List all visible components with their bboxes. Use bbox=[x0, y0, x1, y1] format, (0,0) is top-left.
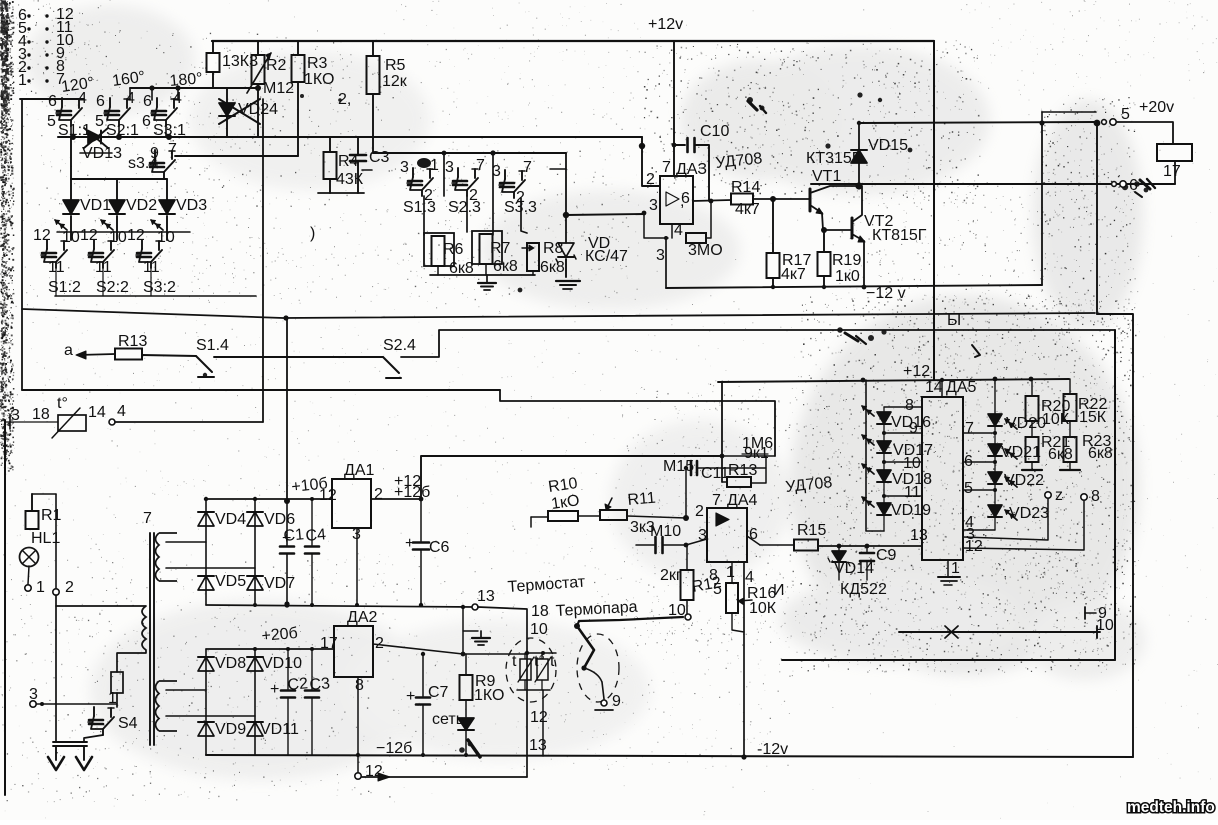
wire thermistor lead bbox=[5, 421, 58, 423]
svg-text:С11: С11 bbox=[701, 465, 729, 482]
switch S4 bbox=[93, 707, 95, 716]
svg-text:R15: R15 bbox=[797, 522, 826, 539]
svg-text:t°: t° bbox=[534, 653, 545, 670]
wire DA5 ground bbox=[947, 560, 949, 576]
svg-text:7: 7 bbox=[476, 157, 485, 174]
svg-text:VD21: VD21 bbox=[1001, 444, 1041, 461]
wire +12v drop to DA3 pin7 bbox=[673, 41, 675, 176]
wire +12v main vertical to indicator box bbox=[933, 41, 935, 380]
led VD16 bbox=[883, 407, 885, 412]
resistor R23 bbox=[1069, 421, 1071, 437]
svg-text:КД522: КД522 bbox=[840, 581, 887, 598]
wire pin9 bbox=[884, 432, 922, 434]
ground under resistors bbox=[486, 275, 488, 283]
resistor R21 bbox=[1031, 421, 1033, 437]
svg-text:7: 7 bbox=[965, 420, 974, 437]
scan noise speckles bbox=[0, 3, 14, 459]
node VT collector junction bbox=[855, 182, 862, 189]
svg-text:3: 3 bbox=[11, 407, 20, 424]
wire led anode feed bbox=[866, 380, 884, 531]
wire temperature select line bbox=[58, 136, 642, 138]
svg-text:12: 12 bbox=[530, 709, 548, 726]
svg-text:КТ815Г: КТ815Г bbox=[872, 227, 927, 244]
svg-text:2кг: 2кг bbox=[660, 567, 682, 584]
svg-text:9: 9 bbox=[612, 693, 621, 710]
wire thermostat to -12 rail bbox=[542, 690, 544, 756]
wire R15 to DA5 bbox=[818, 545, 922, 547]
svg-text:VD5: VD5 bbox=[215, 573, 246, 590]
switch S2.4 bbox=[383, 357, 399, 373]
svg-text:7: 7 bbox=[662, 159, 671, 176]
svg-text:6: 6 bbox=[681, 190, 690, 207]
svg-text:3: 3 bbox=[649, 197, 658, 214]
wire +12v bus bbox=[212, 40, 934, 42]
svg-text:12: 12 bbox=[33, 227, 51, 244]
svg-text:t: t bbox=[550, 653, 555, 670]
svg-text:6к8: 6к8 bbox=[1088, 445, 1113, 462]
svg-text:t: t bbox=[512, 653, 517, 670]
svg-text:R19: R19 bbox=[832, 252, 861, 269]
wire DA4 output bbox=[747, 536, 760, 545]
svg-text:14: 14 bbox=[925, 379, 943, 396]
svg-text:S2.3: S2.3 bbox=[448, 199, 481, 216]
capacitor C7 bbox=[422, 654, 424, 696]
svg-text:4: 4 bbox=[117, 403, 126, 420]
voltage regulator DA1 bbox=[332, 479, 371, 528]
capacitor C11 bbox=[686, 467, 687, 469]
wire pin6 bbox=[963, 461, 995, 463]
svg-text:18: 18 bbox=[32, 406, 50, 423]
capacitor C2 bbox=[287, 649, 289, 689]
diode VD4 bbox=[198, 512, 214, 526]
diode VD13 (crossed out) bbox=[88, 131, 101, 144]
svg-text:R14: R14 bbox=[731, 179, 760, 196]
svg-text:C3: C3 bbox=[369, 149, 390, 166]
svg-text:КС/47: КС/47 bbox=[585, 248, 628, 265]
svg-text:R11: R11 bbox=[627, 490, 657, 509]
svg-text:·: · bbox=[352, 155, 357, 172]
switch S2:2 bbox=[93, 240, 95, 249]
svg-text:1КО: 1КО bbox=[304, 71, 334, 88]
svg-text:10К: 10К bbox=[749, 600, 777, 617]
capacitor C4 bbox=[311, 499, 313, 545]
led VD18 bbox=[883, 453, 885, 470]
zener VD KC147 bbox=[558, 243, 574, 257]
svg-text:VD4: VD4 bbox=[215, 511, 246, 528]
wire output to terminal 6 bbox=[811, 183, 1175, 185]
svg-text:S2.4: S2.4 bbox=[383, 337, 416, 354]
wire S2.3 output to R7 bbox=[466, 196, 468, 232]
svg-text:1КО: 1КО bbox=[474, 687, 504, 704]
led VD23 bbox=[994, 484, 996, 505]
svg-text:4к7: 4к7 bbox=[781, 266, 806, 283]
svg-text:5: 5 bbox=[95, 113, 104, 130]
svg-text:6: 6 bbox=[142, 113, 151, 130]
node terminal z bbox=[1045, 492, 1051, 498]
capacitor C3b bbox=[311, 649, 313, 689]
wire +10 rail bbox=[206, 498, 332, 500]
svg-text:4к7: 4к7 bbox=[735, 201, 760, 218]
op-amp DA3 bbox=[660, 176, 693, 224]
wire pin10 bbox=[884, 461, 922, 463]
resistor R5 bbox=[372, 41, 374, 56]
svg-text:4: 4 bbox=[126, 90, 135, 107]
svg-text:7: 7 bbox=[712, 492, 721, 509]
svg-text:R6: R6 bbox=[443, 241, 464, 258]
diode VD24 (crossed out) bbox=[226, 88, 228, 137]
wire bridge2 columns bbox=[205, 649, 207, 755]
svg-text:17: 17 bbox=[320, 635, 338, 652]
svg-text:ДА2: ДА2 bbox=[347, 609, 378, 626]
svg-text:10: 10 bbox=[109, 229, 127, 246]
wire bridge1 columns bbox=[205, 499, 207, 605]
fuse F1 bbox=[111, 672, 123, 693]
wire R14 to VT1 base bbox=[753, 198, 810, 200]
svg-text:8: 8 bbox=[355, 677, 364, 694]
wire S3.4 line to R3 bbox=[175, 155, 298, 157]
node terminal 13 bbox=[472, 604, 478, 610]
svg-text:10: 10 bbox=[157, 229, 175, 246]
svg-text:VD18: VD18 bbox=[892, 471, 932, 488]
svg-text:+: + bbox=[405, 535, 414, 552]
capacitor C1 bbox=[286, 499, 288, 545]
svg-text:14: 14 bbox=[88, 404, 106, 421]
resistor R6 bbox=[424, 233, 454, 266]
node terminal 9b bbox=[1084, 607, 1086, 619]
svg-text:2: 2 bbox=[646, 171, 655, 188]
wire switch common feed line bbox=[130, 87, 258, 89]
svg-text:VD10: VD10 bbox=[262, 655, 302, 672]
svg-text:+12: +12 bbox=[903, 363, 930, 380]
wire right frame vertical bbox=[262, 99, 264, 422]
wire 1M6 node line bbox=[722, 455, 775, 457]
svg-text:1: 1 bbox=[18, 72, 27, 89]
svg-text:medteh.info: medteh.info bbox=[1127, 799, 1215, 816]
svg-text:С3: С3 bbox=[309, 675, 331, 694]
capacitor C6 bbox=[420, 499, 422, 541]
svg-text:VD3: VD3 bbox=[176, 197, 207, 214]
capacitor M10 bbox=[636, 544, 654, 546]
wire upper box line bbox=[20, 98, 84, 100]
scan mark arrow bbox=[972, 345, 980, 357]
switch S3.3 bbox=[504, 170, 506, 179]
svg-text:15К: 15К bbox=[1079, 409, 1107, 426]
node terminal 6 bbox=[1112, 182, 1117, 187]
zener set diode bbox=[465, 700, 467, 718]
resistor R3 bbox=[297, 41, 299, 55]
wire +20v terminal feed bbox=[859, 122, 1095, 123]
wire node up to 13 rail bbox=[462, 607, 464, 654]
svg-text:VD7: VD7 bbox=[264, 575, 295, 592]
thermistor t bbox=[58, 415, 86, 431]
node terminal 1 bbox=[25, 585, 31, 591]
svg-text:6: 6 bbox=[96, 93, 105, 110]
wire -12 corner up bbox=[1041, 123, 1043, 285]
wire R4 C3 bottom bar bbox=[318, 192, 364, 194]
node terminal 4 bbox=[109, 419, 115, 425]
wire indicator right edge bbox=[1114, 330, 1116, 660]
svg-text:+12б: +12б bbox=[394, 484, 430, 501]
svg-text:VD14: VD14 bbox=[834, 560, 874, 577]
diode VD7 bbox=[247, 576, 263, 590]
svg-text:180°: 180° bbox=[169, 70, 203, 90]
wire pin4 bbox=[963, 529, 995, 531]
led VD17 bbox=[883, 424, 885, 441]
svg-text:М15: М15 bbox=[663, 458, 694, 475]
svg-text:t°: t° bbox=[57, 395, 68, 412]
wire frame bottom bbox=[22, 389, 500, 391]
svg-text:7: 7 bbox=[56, 71, 65, 88]
wire pin2 node vertical bbox=[685, 468, 687, 518]
wire select line corner to pin 2 bbox=[642, 137, 660, 186]
svg-text:С1: С1 bbox=[283, 526, 305, 545]
thermostat sensors bbox=[525, 651, 529, 655]
svg-text:КТ315Г: КТ315Г bbox=[806, 150, 861, 167]
resistor R8 bbox=[527, 243, 539, 271]
svg-text:VD19: VD19 bbox=[891, 502, 931, 519]
svg-text:10: 10 bbox=[668, 602, 686, 619]
svg-text:z: z bbox=[1055, 487, 1063, 504]
svg-text:Ы: Ы bbox=[947, 312, 961, 329]
led VD20 bbox=[994, 379, 996, 414]
wire node to DA4 pin3 bbox=[686, 539, 707, 545]
switch S2:1 bbox=[109, 98, 111, 107]
wire indicator bottom edge bbox=[782, 659, 1115, 661]
svg-text:10: 10 bbox=[530, 621, 548, 638]
svg-text:3: 3 bbox=[445, 159, 454, 176]
svg-text:S1:2: S1:2 bbox=[48, 279, 81, 296]
svg-text:6: 6 bbox=[1129, 177, 1138, 194]
scan edge dark strip bbox=[0, 0, 10, 460]
svg-text:6: 6 bbox=[48, 93, 57, 110]
ground stub near node bbox=[463, 630, 478, 632]
switch S3.4 bbox=[154, 150, 156, 158]
svg-text:+12v: +12v bbox=[648, 16, 683, 33]
svg-text:9: 9 bbox=[150, 145, 159, 162]
led VD21 bbox=[994, 426, 996, 444]
svg-text:ДА1: ДА1 bbox=[344, 462, 375, 479]
node terminal 12 bbox=[357, 755, 359, 773]
svg-text:10: 10 bbox=[62, 229, 80, 246]
wire left edge vertical bbox=[4, 420, 6, 795]
svg-text:1: 1 bbox=[36, 579, 45, 596]
svg-text:сеть: сеть bbox=[432, 711, 464, 728]
resistor R17 bbox=[772, 199, 774, 253]
svg-text:R7: R7 bbox=[490, 240, 511, 257]
svg-text:1к0: 1к0 bbox=[835, 268, 860, 285]
svg-text:VD8: VD8 bbox=[215, 655, 246, 672]
svg-text:VD24: VD24 bbox=[238, 101, 278, 118]
svg-text:3: 3 bbox=[656, 247, 665, 264]
svg-text:VT1: VT1 bbox=[812, 168, 841, 185]
wire arrow to a bbox=[78, 354, 115, 355]
switch S2.3 bbox=[457, 168, 459, 177]
wire 13 to thermostat column bbox=[478, 607, 527, 777]
transformer primary winding bbox=[142, 606, 146, 650]
wire fuse to S4 bbox=[116, 693, 118, 707]
resistor R22 bbox=[1069, 379, 1071, 394]
svg-text:S4: S4 bbox=[118, 715, 138, 732]
svg-text:12: 12 bbox=[80, 227, 98, 244]
wire -12 top line bbox=[666, 285, 1042, 288]
svg-text:12: 12 bbox=[319, 487, 337, 504]
svg-text:−12 v: −12 v bbox=[866, 285, 906, 302]
resistor R15 bbox=[794, 540, 818, 551]
svg-text:3к3: 3к3 bbox=[630, 519, 655, 536]
svg-text:VD11: VD11 bbox=[260, 721, 299, 738]
diode VD10 bbox=[247, 657, 263, 671]
node terminal 3 bbox=[30, 701, 36, 707]
transformer secondary 1 bbox=[156, 533, 178, 581]
wire thermocouple output bbox=[577, 617, 683, 626]
wire terminal 5 to relay bbox=[1117, 122, 1173, 144]
svg-text:2: 2 bbox=[65, 579, 74, 596]
wire pin11 bbox=[884, 495, 922, 497]
switch S1.3 bbox=[412, 168, 414, 177]
svg-text:8: 8 bbox=[1091, 488, 1100, 505]
svg-text:3: 3 bbox=[29, 686, 38, 703]
wire pin5 bbox=[963, 489, 995, 491]
svg-text:С10: С10 bbox=[700, 123, 729, 140]
zener VD14 bbox=[838, 546, 840, 551]
resistor R14 bbox=[731, 194, 753, 205]
wire S1.4 to S2.4 bbox=[214, 356, 383, 358]
svg-text:VD22: VD22 bbox=[1004, 472, 1044, 489]
resistor R12 2k2 bbox=[686, 600, 688, 614]
wire -12b rail long bbox=[206, 755, 1133, 757]
svg-text:−12б: −12б bbox=[376, 740, 412, 757]
wire S3.3 output to R8 bbox=[521, 198, 527, 233]
thermostat dashed outline bbox=[506, 638, 556, 702]
svg-text:6к8: 6к8 bbox=[493, 258, 518, 275]
node terminal 2 bbox=[55, 494, 57, 589]
svg-text:13: 13 bbox=[529, 737, 547, 754]
wire S1.3 pin1 drop bbox=[443, 153, 445, 196]
resistor R13 bbox=[115, 349, 142, 360]
diode VD1 bbox=[70, 179, 72, 200]
wire left frame vertical bbox=[21, 99, 23, 390]
node terminal 9 bbox=[602, 682, 604, 699]
svg-text:S1.3: S1.3 bbox=[403, 199, 436, 216]
svg-text:+: + bbox=[406, 688, 415, 705]
wire z to pin3 bbox=[963, 499, 1048, 540]
resistor R2 (trimmer M12) bbox=[257, 41, 259, 55]
svg-text:5: 5 bbox=[47, 113, 56, 130]
svg-text:VD1: VD1 bbox=[80, 197, 111, 214]
scan noise blobs bbox=[747, 97, 753, 103]
svg-text:VD15: VD15 bbox=[868, 137, 908, 154]
resistor R20 bbox=[1031, 379, 1033, 396]
diode VD8 bbox=[198, 657, 214, 671]
resistor R19 bbox=[823, 230, 825, 252]
wire resistor bottoms bbox=[430, 274, 535, 276]
led VD22 bbox=[994, 456, 996, 472]
svg-text:): ) bbox=[310, 225, 315, 242]
svg-text:7: 7 bbox=[143, 510, 152, 527]
svg-text:10К: 10К bbox=[1042, 411, 1070, 428]
svg-text:VD23: VD23 bbox=[1009, 505, 1049, 522]
svg-text:С7: С7 bbox=[428, 684, 449, 701]
diode VD9 bbox=[198, 722, 214, 736]
thermocouple dashed outline bbox=[577, 634, 619, 702]
wire primary to fuse bbox=[117, 650, 146, 672]
potentiometer R11 bbox=[578, 515, 600, 517]
diode VD5 bbox=[198, 576, 214, 590]
svg-text:R13: R13 bbox=[118, 333, 147, 350]
node terminal 10 bbox=[685, 614, 691, 620]
svg-text:S2:2: S2:2 bbox=[96, 279, 129, 296]
svg-text:4: 4 bbox=[745, 569, 754, 586]
wire +20b rail bbox=[206, 648, 334, 650]
wire +20 return vertical bbox=[1096, 122, 1098, 314]
wire +20 stub upper bbox=[1042, 111, 1096, 113]
wire terminal 4 to frame bbox=[115, 421, 263, 423]
wire summing column bbox=[565, 153, 567, 243]
svg-text:ДА5: ДА5 bbox=[946, 379, 977, 396]
relay heater block bbox=[1157, 144, 1192, 161]
svg-text:a: a bbox=[64, 342, 73, 359]
svg-text:1: 1 bbox=[430, 157, 439, 174]
svg-text:12: 12 bbox=[965, 538, 983, 555]
capacitor C3 bbox=[357, 137, 359, 154]
svg-text:+20v: +20v bbox=[1139, 99, 1174, 116]
svg-text:13: 13 bbox=[910, 527, 928, 544]
switch S1:1 bbox=[61, 98, 63, 107]
svg-text:3МО: 3МО bbox=[688, 242, 723, 259]
svg-text:1: 1 bbox=[726, 564, 735, 581]
wire S4 to plug bbox=[84, 735, 103, 742]
wire +20net drop bbox=[286, 318, 288, 499]
wire node to thermostat bbox=[463, 653, 527, 655]
svg-text:7: 7 bbox=[168, 141, 177, 158]
diode VD2 bbox=[116, 179, 118, 200]
svg-text:R1: R1 bbox=[41, 507, 62, 524]
wire box top sloped line bbox=[22, 309, 1095, 318]
svg-text:43К: 43К bbox=[336, 171, 364, 188]
svg-text:5: 5 bbox=[713, 581, 722, 598]
wire relay to terminal 6 bbox=[1174, 161, 1176, 184]
diode VD11 bbox=[247, 722, 263, 736]
svg-text:3: 3 bbox=[698, 527, 707, 544]
transformer secondary 2 bbox=[156, 681, 178, 731]
node terminal 8 bbox=[1081, 494, 1087, 500]
wire terminal 12 arrow line bbox=[362, 776, 527, 778]
thermocouple junction bbox=[577, 626, 594, 668]
svg-text:4: 4 bbox=[173, 90, 182, 107]
resistor R7 bbox=[472, 231, 502, 264]
diode VD3 bbox=[166, 179, 168, 200]
svg-text:4: 4 bbox=[78, 90, 87, 107]
svg-text:18: 18 bbox=[531, 603, 549, 620]
svg-text:7: 7 bbox=[523, 159, 532, 176]
resistor R10 bbox=[530, 517, 532, 527]
switch S3:1 bbox=[156, 98, 158, 107]
wire S1.3 output to R6 bbox=[423, 196, 425, 235]
svg-text:12к: 12к bbox=[382, 73, 408, 90]
display driver DA5 bbox=[922, 397, 963, 560]
wire R7 feed drop bbox=[492, 153, 494, 235]
transformer core bbox=[149, 533, 151, 745]
wire 8 to pin12 bbox=[963, 501, 1084, 550]
svg-text:4: 4 bbox=[674, 222, 683, 239]
wire terminal2 to primary bbox=[55, 595, 57, 742]
op-amp DA4 bbox=[707, 508, 747, 562]
resistor 13K3 bbox=[212, 41, 214, 53]
svg-text:1: 1 bbox=[951, 560, 960, 577]
wire +12 indicator rail bbox=[718, 379, 1069, 382]
svg-text:12: 12 bbox=[127, 227, 145, 244]
svg-text:R3: R3 bbox=[307, 55, 328, 72]
